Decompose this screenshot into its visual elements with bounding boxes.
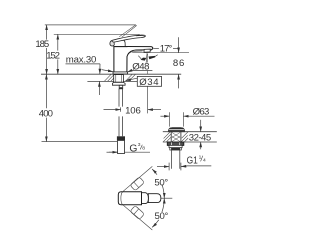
32-45 bottom arrow	[200, 142, 202, 149]
bottom extension line (hose end)	[42, 141, 118, 143]
dim 152 line+arrows	[57, 34, 59, 74]
drain flange cap	[168, 128, 184, 132]
Ø48 right leader arrow	[127, 71, 131, 73]
svg-text:106: 106	[125, 106, 141, 117]
supply hose lower segment	[119, 116, 122, 136]
mounting washer	[112, 82, 125, 85]
drain tailpipe connector band	[171, 148, 180, 150]
extension line: rest lever top level	[54, 33, 140, 35]
86 extension line at spout outlet	[132, 52, 189, 54]
top view inner left line	[121, 192, 123, 205]
Ø34 leader arrow	[126, 78, 138, 80]
top view mid part	[141, 193, 148, 204]
lower 50° arc inner segment	[162, 198, 164, 212]
svg-text:50°: 50°	[155, 211, 169, 222]
G1 1/4 left arrow	[157, 166, 169, 168]
upper 50° arc inner segment	[162, 184, 164, 198]
drain deck top line	[163, 131, 217, 133]
svg-text:185: 185	[35, 39, 49, 50]
lever grip curl	[110, 40, 114, 46]
svg-text:8: 8	[142, 146, 145, 152]
svg-text:G: G	[129, 144, 137, 155]
shank through deck	[114, 75, 124, 83]
svg-text:86: 86	[173, 58, 185, 69]
upper 50° arc outer segment	[152, 169, 157, 175]
hose nipple	[119, 85, 123, 89]
deck bottom line	[87, 80, 137, 82]
lower 50° arc outer segment	[152, 220, 159, 228]
drain deck bottom line	[163, 141, 217, 143]
supply hose upper segment	[119, 89, 122, 107]
Ø34 label box	[137, 76, 161, 86]
G3/8 threaded end	[118, 140, 125, 153]
drain washer ring 2	[170, 148, 182, 150]
Ø63 left arrow	[160, 115, 169, 117]
handle dome	[113, 40, 125, 47]
G3/8 leader left segment	[107, 151, 118, 153]
lever blade tip edge	[136, 35, 145, 38]
17° reference line left part	[153, 48, 159, 50]
svg-text:Ø63: Ø63	[193, 106, 210, 117]
drain washer ring 1	[169, 145, 182, 147]
lower radial line	[122, 204, 152, 230]
G3/8 leader arrow	[109, 151, 118, 153]
lever blade	[112, 35, 145, 42]
svg-text:400: 400	[39, 108, 53, 119]
spout inner contour line	[128, 51, 142, 54]
faucet base plinth	[113, 72, 128, 74]
drain deck hatch	[163, 132, 188, 142]
Ø63 extension lines	[169, 112, 183, 126]
aerator at spout tip	[144, 49, 150, 52]
max.30 lower arrow to deck bottom	[98, 82, 100, 96]
svg-text:3: 3	[138, 142, 141, 148]
svg-text:Ø34: Ø34	[139, 77, 159, 88]
svg-text:G1: G1	[187, 156, 198, 167]
deck hatch left of shank	[104, 74, 114, 81]
17° left wedge tail	[138, 56, 141, 59]
upper ghost lever	[130, 177, 144, 191]
spout tip extension line below box	[147, 86, 149, 113]
drain mounting nut	[167, 142, 184, 145]
top view centerline	[161, 197, 172, 199]
spout underside and body right edge	[127, 50, 144, 72]
G1 1/4 right arrow (from underline)	[181, 165, 187, 167]
drain flange base bar	[168, 130, 184, 132]
G3/8 underline	[125, 151, 150, 153]
Ø63 underline + right arrow	[183, 115, 214, 117]
dim 400 line+arrows	[45, 74, 47, 141]
86 top arrow (above, pointing down)	[178, 37, 180, 53]
svg-text:Ø48: Ø48	[132, 62, 149, 73]
17° left wedge arrowhead	[141, 58, 147, 61]
deck hatch right of shank	[125, 74, 135, 81]
G1 1/4 underline	[186, 165, 212, 167]
max.30 underline	[66, 63, 101, 65]
86 bottom arrow (below deck, pointing up)	[178, 74, 180, 88]
17° right wedge tail	[155, 55, 158, 57]
lower ghost lever	[130, 206, 144, 220]
faucet body outline with spout	[114, 47, 153, 72]
svg-text:50°: 50°	[154, 177, 168, 188]
top view lever tip part	[148, 194, 161, 203]
spout tip extension line above deck	[147, 54, 149, 63]
lever raised position (thin lines)	[119, 25, 136, 37]
hose nut (dark)	[117, 136, 125, 140]
17° right wedge arrowhead	[149, 56, 156, 59]
dim 106 tick at faucet axis	[120, 107, 122, 111]
deck top line	[41, 73, 181, 75]
17° reference line right part	[173, 48, 179, 50]
dim 185 line+arrows	[46, 25, 48, 74]
top view main body	[118, 192, 141, 205]
dim 106 left arrow	[104, 109, 121, 111]
Ø48 underline	[131, 70, 152, 72]
drain body in deck (threaded)	[171, 132, 181, 142]
max.30 upper arrow to deck top	[99, 64, 101, 74]
drain nut facet lines	[171, 142, 173, 145]
svg-text:152: 152	[46, 51, 60, 62]
upper radial line	[122, 166, 152, 192]
32-45 top arrow	[200, 120, 202, 132]
svg-text:32-45: 32-45	[189, 133, 211, 144]
hose nipple collar	[120, 87, 123, 89]
extension line: raised lever top level	[45, 24, 136, 26]
Ø48 left arrow	[102, 70, 114, 72]
drain flange top bar	[169, 128, 183, 130]
dim 106 right arrow	[148, 109, 161, 111]
drain tailpipe	[171, 150, 179, 169]
G1 1/4 dim ticks	[169, 163, 181, 171]
17° stream line (tilted)	[146, 52, 147, 63]
svg-text:4: 4	[203, 158, 206, 164]
